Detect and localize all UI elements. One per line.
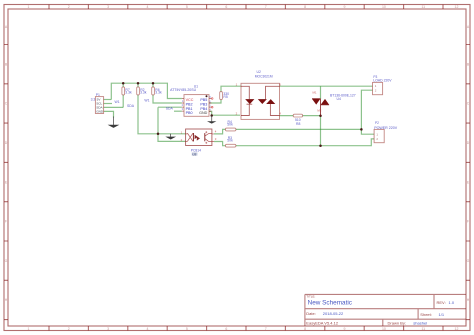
svg-text:50k: 50k <box>227 123 233 127</box>
svg-text:3.3: 3.3 <box>91 97 96 101</box>
svg-text:POWER 220V: POWER 220V <box>374 126 398 130</box>
svg-text:VCC: VCC <box>186 98 194 102</box>
svg-text:C: C <box>467 102 470 106</box>
svg-text:8: 8 <box>304 327 306 331</box>
svg-text:F: F <box>467 220 469 224</box>
svg-text:E: E <box>467 180 470 184</box>
svg-text:3.3k: 3.3k <box>155 91 162 95</box>
svg-text:3.3k: 3.3k <box>125 91 132 95</box>
svg-text:3: 3 <box>107 5 109 9</box>
svg-text:50k: 50k <box>227 139 233 143</box>
svg-text:Date:: Date: <box>306 311 316 316</box>
svg-text:R8: R8 <box>296 122 300 126</box>
svg-text:9: 9 <box>344 5 346 9</box>
svg-text:GND: GND <box>199 111 208 115</box>
svg-text:E: E <box>5 180 8 184</box>
svg-text:H: H <box>467 298 470 302</box>
svg-text:9: 9 <box>344 327 346 331</box>
svg-text:SDA: SDA <box>127 104 135 108</box>
svg-text:1: 1 <box>376 133 378 137</box>
svg-text:TITLE:: TITLE: <box>306 295 315 299</box>
svg-text:U2: U2 <box>257 70 261 74</box>
svg-text:PB0: PB0 <box>186 111 193 115</box>
svg-text:2: 2 <box>375 89 377 93</box>
svg-text:MOC3021M: MOC3021M <box>255 74 273 78</box>
svg-text:GND: GND <box>96 110 104 114</box>
svg-text:4: 4 <box>147 5 149 9</box>
svg-text:B: B <box>5 63 8 67</box>
svg-text:ATTINY85-20SU: ATTINY85-20SU <box>170 88 196 92</box>
svg-text:7: 7 <box>265 327 267 331</box>
svg-text:3: 3 <box>107 327 109 331</box>
svg-text:PB5: PB5 <box>200 98 207 102</box>
svg-text:2: 2 <box>68 327 70 331</box>
svg-text:BT136-600E,127: BT136-600E,127 <box>330 93 356 97</box>
svg-text:1: 1 <box>375 84 377 88</box>
svg-text:1: 1 <box>28 327 30 331</box>
svg-text:6: 6 <box>225 327 227 331</box>
svg-text:New Schematic: New Schematic <box>308 300 353 307</box>
svg-text:C: C <box>5 102 8 106</box>
svg-text:D: D <box>467 141 470 145</box>
svg-text:Drawn By:: Drawn By: <box>388 321 406 326</box>
svg-text:A: A <box>467 25 470 29</box>
svg-text:2: 2 <box>68 5 70 9</box>
svg-text:D: D <box>5 141 8 145</box>
svg-text:H: H <box>5 298 8 302</box>
svg-text:REV:: REV: <box>437 300 446 305</box>
svg-text:F: F <box>5 220 7 224</box>
svg-text:6: 6 <box>225 5 227 9</box>
svg-text:2: 2 <box>182 103 184 107</box>
svg-text:R5: R5 <box>223 95 227 99</box>
svg-text:W1: W1 <box>115 100 120 104</box>
svg-text:5: 5 <box>186 327 188 331</box>
svg-text:1.0: 1.0 <box>449 300 455 305</box>
svg-text:1: 1 <box>28 5 30 9</box>
svg-text:12: 12 <box>455 5 459 9</box>
svg-text:4: 4 <box>215 130 217 134</box>
svg-text:P1: P1 <box>96 93 100 97</box>
svg-text:G: G <box>5 259 8 263</box>
svg-text:11: 11 <box>421 327 425 331</box>
svg-text:EasyEDA V5.4.12: EasyEDA V5.4.12 <box>306 320 339 325</box>
svg-text:3.3k: 3.3k <box>140 91 147 95</box>
svg-text:8: 8 <box>304 5 306 9</box>
svg-text:B: B <box>467 63 470 67</box>
svg-text:W1: W1 <box>144 99 149 103</box>
svg-text:11: 11 <box>421 5 425 9</box>
svg-text:M2: M2 <box>317 109 321 113</box>
svg-text:LOAD 220V: LOAD 220V <box>373 79 392 83</box>
svg-text:SDA: SDA <box>166 106 174 110</box>
svg-text:5: 5 <box>186 5 188 9</box>
svg-text:A: A <box>5 25 8 29</box>
svg-text:2018-05-22: 2018-05-22 <box>323 311 344 316</box>
svg-text:12: 12 <box>455 327 459 331</box>
svg-text:3: 3 <box>182 107 184 111</box>
svg-text:P2: P2 <box>375 121 379 125</box>
svg-text:4: 4 <box>147 327 149 331</box>
svg-text:2: 2 <box>376 137 378 141</box>
svg-text:Sheet:: Sheet: <box>420 312 432 317</box>
svg-text:M1: M1 <box>313 91 317 95</box>
svg-text:3: 3 <box>215 137 217 141</box>
svg-text:7: 7 <box>265 5 267 9</box>
svg-text:10: 10 <box>382 5 386 9</box>
svg-text:10: 10 <box>382 327 386 331</box>
svg-text:G: G <box>467 259 470 263</box>
svg-text:U4: U4 <box>337 97 341 101</box>
svg-text:1/1: 1/1 <box>439 312 445 317</box>
svg-text:U3: U3 <box>192 152 196 156</box>
svg-text:shashel: shashel <box>413 321 427 326</box>
